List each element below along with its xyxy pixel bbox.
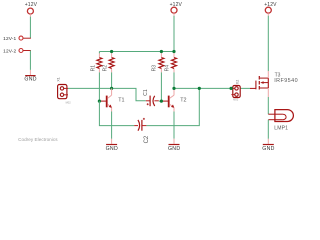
svg-text:X1: X1: [57, 77, 61, 81]
svg-text:GND: GND: [262, 146, 274, 152]
ground (left): [24, 75, 36, 83]
resistor R2: [103, 58, 114, 72]
resistor R4: [165, 58, 177, 72]
wire T1 base to C2: [99, 101, 134, 126]
supply +12V (left): [25, 2, 38, 17]
wire T2 emitter to ground: [173, 108, 175, 144]
wire 12V-2 to ground: [23, 51, 31, 76]
supply +12V (right): [264, 2, 277, 16]
ground (T1 emitter): [106, 144, 118, 152]
svg-text:GND: GND: [168, 146, 180, 152]
node T1 collector: [110, 87, 113, 90]
supply +12V (middle): [170, 2, 183, 16]
transistor T1: [100, 88, 125, 108]
wire R1 column (rail to T1 base): [98, 52, 100, 102]
wire R2 column (rail to T1 collector): [111, 52, 113, 89]
svg-text:R3: R3: [152, 65, 158, 72]
svg-text:X2: X2: [235, 80, 239, 84]
svg-text:C1: C1: [143, 89, 149, 96]
capacitor C2: [134, 118, 150, 144]
node rail-R3: [160, 50, 163, 53]
capacitor C1: [143, 89, 162, 106]
wire +12V middle down to rail: [173, 16, 175, 52]
svg-text:GND: GND: [106, 146, 118, 152]
resistor R1: [90, 58, 102, 72]
svg-text:+12V: +12V: [25, 2, 38, 8]
node rail-R2: [110, 50, 113, 53]
connector pad 12V-1: [3, 36, 23, 42]
svg-text:R1: R1: [90, 65, 96, 72]
node T1 base: [98, 100, 101, 103]
node X2 tap: [230, 87, 233, 90]
ground (T2 emitter): [168, 144, 180, 152]
svg-text:C2: C2: [144, 135, 150, 143]
transistor T2: [162, 88, 187, 108]
svg-text:12V-2: 12V-2: [3, 48, 16, 54]
wire T1 collector to C1: [112, 88, 146, 100]
wire T1 emitter to ground: [111, 108, 113, 144]
svg-text:R4: R4: [165, 65, 171, 72]
svg-text:M02: M02: [66, 100, 72, 104]
lamp LMP1: [268, 110, 293, 132]
wire R3 column (rail to T2 base): [160, 52, 162, 102]
mosfet T3 IRF9540: [250, 72, 298, 89]
wire +12V to T3 source: [267, 16, 269, 78]
svg-text:T1: T1: [118, 98, 124, 104]
svg-text:+12V: +12V: [264, 2, 277, 8]
svg-text:Codrey Electronics: Codrey Electronics: [18, 137, 58, 142]
resistor R3: [152, 58, 164, 72]
node T2 base: [160, 100, 163, 103]
node T2 collector: [172, 87, 175, 90]
svg-text:T2: T2: [180, 98, 186, 104]
connector X1: [57, 77, 72, 104]
svg-text:12V-1: 12V-1: [3, 36, 16, 42]
ground (lamp): [262, 144, 274, 152]
svg-text:LMP1: LMP1: [274, 126, 288, 132]
svg-text:GND: GND: [24, 77, 36, 83]
wire T3 drain to lamp: [267, 88, 269, 114]
svg-text:M02: M02: [233, 98, 239, 102]
connector X2: [231, 80, 240, 102]
wire C2 to T2 collector: [146, 88, 199, 125]
node C2 branch: [198, 87, 201, 90]
svg-text:R2: R2: [103, 65, 109, 72]
wire T2 collector to gate: [174, 87, 250, 89]
wire +12V to 12V-1: [23, 17, 31, 39]
svg-text:IRF9540: IRF9540: [274, 78, 298, 84]
node rail-R4: [172, 50, 175, 53]
wire +12V rail: [99, 51, 174, 53]
wire R4 column (rail to T2 collector): [173, 52, 175, 89]
wire lamp to ground: [267, 120, 269, 144]
connector pad 12V-2: [3, 48, 23, 54]
svg-text:+12V: +12V: [170, 2, 183, 8]
wire collector net T1: [68, 87, 112, 89]
